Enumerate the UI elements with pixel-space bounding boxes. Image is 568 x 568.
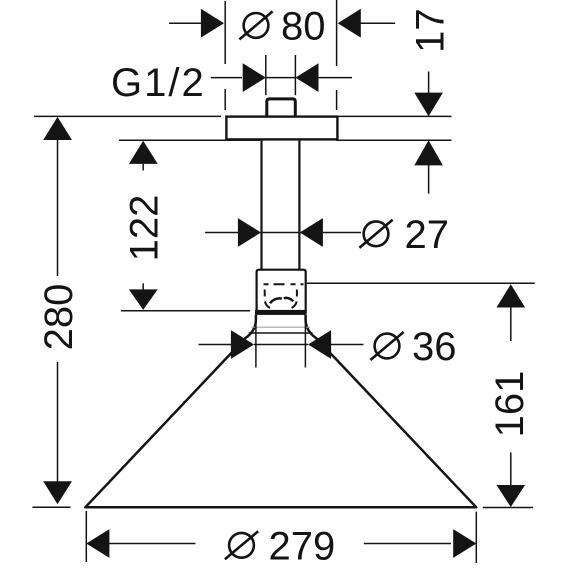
dim 122 bottom arrow — [129, 289, 158, 310]
svg-text:122: 122 — [123, 195, 167, 262]
dim O36 right witness — [304, 315, 306, 368]
dim O279 left tail — [109, 543, 196, 545]
dim G1/2 right witness — [294, 55, 296, 95]
dim G1/2 leader — [211, 77, 242, 79]
122 bottom witness — [121, 310, 250, 312]
dim 280 line lower — [57, 362, 59, 482]
dim O36 diameter symbol — [370, 332, 403, 360]
dim O279 left witness — [85, 511, 87, 562]
hidden funnel right dash — [296, 290, 298, 297]
dim 122 upper stub — [142, 164, 144, 171]
dim 161 top witness — [307, 282, 535, 284]
ring line dark — [249, 332, 313, 334]
dim O27 diameter symbol — [359, 220, 392, 248]
svg-text:161: 161 — [488, 371, 532, 438]
dim G1/2 left arrow — [243, 63, 266, 92]
spray element left mark — [270, 298, 282, 303]
dim O27 cross line — [261, 232, 300, 234]
svg-text:280: 280 — [37, 284, 81, 351]
dim 161 lower line — [510, 452, 512, 486]
dim O80 right witness upper — [336, 0, 338, 66]
dim O36 right tail — [331, 344, 364, 346]
dim 161 down arrow — [497, 485, 526, 507]
dim O36 left tail — [199, 344, 232, 346]
dim O279 right witness — [475, 512, 477, 563]
svg-text:36: 36 — [412, 325, 457, 369]
dim G1/2 right arrow — [295, 63, 318, 92]
dim 122 lower stub — [142, 283, 144, 289]
shower arm pipe left wall — [260, 139, 262, 269]
dim G1/2 right tail — [318, 77, 352, 79]
dim O80 right witness lower — [336, 90, 338, 110]
dim 280 line upper — [57, 139, 59, 276]
svg-text:17: 17 — [408, 8, 452, 53]
hidden head top (dash-dot line) — [264, 283, 304, 285]
hidden funnel left foot — [265, 302, 270, 309]
dim 161 up arrow — [497, 284, 526, 307]
dim 122 top arrow — [129, 141, 158, 164]
dim O27 left arrow — [238, 218, 261, 247]
dim 161 bottom witness — [483, 507, 533, 509]
dim O80 left witness upper — [224, 1, 226, 64]
dim O279 left arrow — [86, 529, 109, 558]
cone body — [85, 315, 476, 507]
plate bottom witness right — [336, 139, 451, 141]
dim 280 top arrow — [43, 117, 72, 140]
dim O27 right tail — [322, 232, 361, 234]
shower arm pipe right wall — [298, 139, 300, 269]
dim O36 right arrow — [308, 330, 331, 359]
svg-text:27: 27 — [405, 213, 450, 257]
ceiling plate — [226, 117, 337, 140]
dim 17 down arrow — [414, 93, 443, 117]
dim O80 left witness lower — [224, 89, 226, 110]
dim O80 diameter symbol — [239, 11, 272, 39]
dim O80 left arrow — [201, 9, 224, 38]
dim O279 right arrow — [453, 529, 476, 558]
dim G1/2 mid line — [266, 77, 296, 79]
dim 17 up arrow — [414, 140, 443, 165]
dim 280 bottom witness — [32, 506, 70, 508]
dim O36 left arrow — [231, 330, 254, 359]
spray element right mark — [284, 298, 293, 301]
dim O36 cross line — [254, 344, 308, 346]
ring line light — [252, 326, 311, 328]
svg-text:80: 80 — [281, 5, 326, 49]
svg-text:G1/2: G1/2 — [111, 61, 206, 105]
ceiling line left — [34, 115, 221, 117]
dim O27 right arrow — [300, 218, 323, 247]
connector housing — [257, 270, 306, 313]
ceiling line right — [339, 115, 452, 117]
collar band — [255, 310, 307, 315]
dim O80 left tail — [169, 22, 202, 24]
dim O279 right tail — [364, 543, 451, 545]
dim O80 right tail — [360, 22, 395, 24]
dim G1/2 left witness — [265, 55, 267, 95]
dim O27 left tail — [205, 232, 238, 234]
supply nipple — [267, 99, 296, 117]
dim O80 right arrow — [338, 9, 361, 38]
dim 17 lower line — [428, 165, 430, 194]
dim 161 upper line — [510, 307, 512, 341]
hidden funnel left dash — [264, 290, 266, 297]
plate bottom witness left — [119, 139, 260, 141]
svg-text:279: 279 — [269, 524, 336, 568]
dim 280 bottom arrow — [43, 481, 72, 504]
dim 17 upper line — [428, 72, 430, 94]
dim O36 left witness — [255, 315, 257, 368]
dim O279 diameter symbol — [225, 531, 258, 559]
hidden funnel right foot — [292, 302, 297, 309]
